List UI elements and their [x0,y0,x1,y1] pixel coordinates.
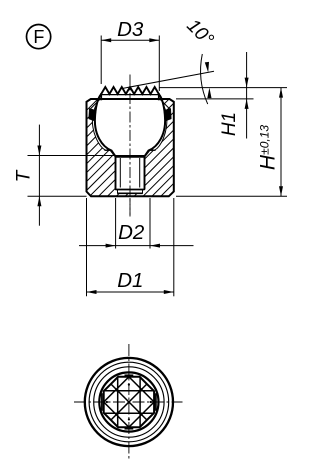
svg-text:T: T [13,169,34,182]
serration diamond [104,377,154,427]
svg-text:10°: 10° [182,15,217,50]
serrated crown teeth [101,87,159,94]
svg-text:H±0,13: H±0,13 [256,125,279,170]
bottom extension line [176,195,287,197]
dimension T line [38,125,40,226]
facet dots [106,384,152,421]
left crimp lip [89,108,96,121]
bottom view outer circle [85,358,173,446]
bottom view vertical centerline [128,344,130,460]
svg-text:D1: D1 [117,269,143,292]
dimension H text [256,125,279,170]
10 degree tilt line [121,71,214,89]
dimension D2 extension lines [116,198,150,249]
dimension T text [13,169,34,182]
top face extension line [176,98,254,100]
socket and bore white cavity [92,99,167,193]
dimension D3 arrows [101,38,159,42]
left lip edge line [90,100,100,110]
octagon side chords [102,375,156,428]
ball [95,94,165,157]
serration diagonals [111,384,147,420]
thread bore major lines [116,157,145,190]
dimension D1 line [87,291,174,293]
svg-text:D3: D3 [117,18,144,41]
dimension D3 line [101,39,159,41]
bore bottom lines [116,190,145,194]
dimension D2 text [118,221,145,244]
bottom view chamfer circle [89,362,169,442]
dimension H1 text [219,112,240,136]
dimension D2 line [79,245,194,247]
serration tip reference line [160,87,288,89]
body outline [87,99,174,196]
bottom view ball circle [99,372,158,431]
bottom view socket rim circle [94,367,164,437]
dimension D2 arrows [106,244,160,248]
dimension D3 extension lines [101,36,159,92]
dimension H1 arrows [245,78,249,109]
right crimp lip [164,108,171,121]
svg-text:D2: D2 [118,221,145,244]
10 degree text [182,15,217,50]
serrated face octagon [104,377,154,427]
svg-text:F: F [33,27,44,47]
dimension D1 arrows [87,290,174,294]
serration grid vertical lines [118,377,140,426]
front view centerline [129,75,131,217]
10 degree dimension arc [201,54,208,104]
10 degree arc arrows [205,62,212,98]
serration base line [100,93,159,95]
socket bottom ledges [104,149,155,151]
dimension D1 text [117,269,143,292]
view label circle F [26,24,50,48]
dimension D3 text [117,18,144,41]
dimension T extension lines [28,156,145,197]
serration grid horizontal lines [104,391,153,413]
svg-text:H1: H1 [219,112,240,136]
right lip edge line [160,100,170,110]
bottom view horizontal centerline [74,401,183,403]
hatched body section [80,8,180,286]
dimension H arrows [279,88,283,197]
dimension H line [280,88,282,197]
view label letter F [33,27,44,47]
dimension D1 extension lines [87,198,174,296]
body top face line [91,98,170,100]
dimension H1 line [246,52,248,139]
bore entry chamfers [111,150,150,157]
centerline stub below body [129,198,131,217]
dimension T arrows [37,146,41,207]
ball plateau edges [101,94,159,101]
thread bore minor lines [120,158,139,188]
